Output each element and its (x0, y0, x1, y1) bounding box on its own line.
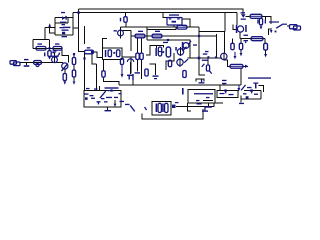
wire R22 arrow shaft (265, 50, 267, 54)
wire box4 left foot (188, 103, 192, 111)
junction dot x92 (91, 51, 93, 53)
dot x208 y57 (207, 56, 209, 58)
box6 bar1 (156, 104, 158, 113)
cap C6 capsule (145, 69, 148, 76)
wire box1 bottom (33, 47, 62, 49)
arrow down x74 (73, 81, 76, 85)
capsule x74 (72, 58, 75, 65)
wire box1 center vertical (49, 40, 51, 51)
wire R11 stem top (125, 13, 127, 18)
IC U1 box (167, 18, 182, 26)
box2 dash g (119, 93, 122, 94)
wire sub box bottom (55, 34, 73, 36)
wire R18 out (243, 65, 248, 67)
navy line y78 (248, 77, 271, 78)
resistor R21 (251, 37, 263, 41)
navy line y22 (269, 21, 279, 22)
dash y103.8 x197 (197, 103, 202, 104)
inductor L1 (34, 61, 42, 67)
navy dash x120 (120, 101, 125, 102)
navy I x182 (182, 88, 184, 95)
box2 dash f (114, 97, 118, 98)
resistor R5 (53, 47, 62, 51)
arrow down x235 head (234, 56, 237, 59)
resistor R19 (239, 43, 242, 49)
wire v92 jog (92, 52, 97, 64)
box2 dot (110, 89, 112, 91)
transistor Q5 circle (183, 43, 189, 49)
diag x202 (201, 63, 205, 67)
wire corner x258 (259, 86, 264, 93)
capsule x184 (183, 71, 186, 78)
wire spur y29.5 (147, 27, 176, 30)
cap x261 bar right (265, 20, 266, 24)
arrow x122 head (121, 74, 124, 78)
navy dash x126 (125, 104, 130, 105)
wire R11 stem bottom (125, 22, 127, 27)
dash y52.6 (52, 52, 55, 53)
R12 label (138, 31, 143, 32)
arrow x122 shaft (122, 65, 123, 75)
wire bus y40 (147, 40, 190, 58)
capsule x141 (140, 53, 143, 59)
cap marks x129 (129, 75, 130, 80)
wire R23 out (187, 26, 199, 28)
wire box2 stub up (99, 86, 101, 91)
switch arm SW1 (61, 63, 69, 71)
resistor R3 vertical (48, 51, 51, 57)
tee y110 stem (204, 107, 205, 112)
dot x199 y58 (198, 57, 201, 60)
cap C4 plate top (60, 22, 67, 23)
resistor R8 (85, 50, 94, 54)
port output (290, 25, 301, 30)
dot x275.5 (275, 31, 277, 33)
ground Q3 (127, 75, 133, 76)
dash y51.5 x206 (205, 51, 209, 52)
wire bus y106.3 (176, 103, 223, 106)
wire input gnd tap (26, 63, 28, 66)
diode D1 (62, 16, 65, 20)
wire box1 left (32, 40, 34, 49)
arrow down x261 head (260, 26, 263, 29)
switch dash (282, 24, 287, 25)
box2 dash a (85, 93, 89, 94)
Q5 marks (193, 44, 197, 45)
wire v133 (132, 80, 134, 85)
arrow down R19 (240, 53, 243, 56)
capsule x74 low (72, 70, 75, 77)
wire Q1 chain (64, 69, 66, 73)
ground x137 (135, 72, 141, 73)
wire stub265 (265, 16, 267, 22)
switch arm head (58, 52, 60, 54)
wire boxB stem (240, 99, 242, 103)
boxB dot (250, 89, 252, 91)
R11 tick (120, 18, 121, 22)
cap C3 minus (53, 50, 57, 51)
Q5 diagonal (188, 41, 192, 45)
wire rail B drop x237 (236, 13, 238, 26)
wire circleA line (180, 47, 182, 56)
port input (10, 61, 20, 66)
wire h57 (122, 56, 136, 58)
wire input (20, 62, 63, 64)
arrow right out (245, 65, 248, 68)
cluster dot (162, 51, 164, 53)
box3L dot (113, 52, 115, 54)
box6 capsule1 (158, 103, 161, 112)
wire v199 (199, 27, 205, 75)
U1 dash right (183, 25, 187, 26)
resistor R6 vertical (63, 74, 66, 81)
box6 capsule2 (165, 103, 168, 112)
box2 dash above (86, 88, 90, 89)
resistor R22 (264, 43, 268, 50)
wire R8 out (94, 52, 103, 58)
wire out seg (287, 25, 290, 27)
diode D1 bar (65, 16, 66, 20)
box2 dash c (91, 98, 95, 99)
navy dash y90 (249, 90, 253, 91)
cap stack square (62, 32, 65, 34)
cluster bar (155, 48, 157, 56)
dot x168 y40 (167, 39, 169, 41)
wire stub y28 (73, 27, 79, 29)
boxB square (246, 96, 249, 99)
wire R20 out (262, 16, 271, 24)
junction dot x84 (83, 57, 85, 59)
wire y31.5 (199, 31, 225, 33)
wire rail A top (79, 9, 244, 14)
arrow x239 head (237, 88, 240, 91)
cap224 plate1 (222, 80, 227, 81)
box2 tee bar (97, 101, 101, 102)
cap C8 stem (245, 41, 246, 43)
wire rail A left drop (79, 9, 85, 52)
wire v131b (130, 57, 132, 74)
diag x210 (209, 70, 212, 74)
wire bus y58 (188, 57, 222, 59)
cap C4 plate bottom (62, 24, 66, 25)
diode V1 triangle (241, 14, 246, 17)
cap x261 capsule (259, 18, 262, 24)
U1 blob (172, 21, 177, 23)
bracket tee bar (199, 82, 205, 83)
R13 label (155, 31, 160, 32)
wire v131 (130, 31, 132, 52)
wire tee208 stem (208, 103, 210, 106)
capsule x232 (231, 43, 234, 49)
resistor R20 (250, 14, 262, 18)
resistor R9 vertical (102, 71, 105, 77)
cluster capsule (166, 47, 170, 57)
wire drop x225 low (224, 32, 226, 54)
wire sub box left (54, 18, 56, 36)
switch arm diag58 (56, 54, 60, 59)
gnd tap bar (24, 65, 30, 67)
wire arrow x115 shaft (114, 100, 116, 104)
arrow down R6 (63, 81, 66, 84)
wire box2 rect (84, 91, 121, 108)
cap C7 bottom (202, 60, 209, 61)
tee under box2 (105, 110, 112, 111)
box4 inner line (194, 93, 213, 94)
wire C3 line (54, 53, 56, 63)
wire vcap232 stem (232, 39, 234, 44)
cap C8 plate top (244, 35, 249, 36)
Q8 bar left (236, 25, 238, 33)
wire cluster box (146, 46, 164, 55)
transistor Q7 circle (221, 53, 227, 59)
wire arrow A1 bend (50, 27, 55, 34)
wire v216 (216, 34, 218, 58)
wire bottom rail (142, 109, 203, 119)
box2 tee stem (98, 101, 99, 104)
wire v141 long (141, 60, 143, 80)
U1 line above (169, 14, 179, 15)
U1 dash a (169, 18, 172, 19)
cap marks x132 (132, 74, 133, 80)
resistor R23 (177, 25, 187, 29)
arrow down x261 shaft (261, 25, 262, 27)
boxA dot (224, 89, 226, 91)
box2 dash e (106, 97, 112, 98)
resistor R4 (36, 47, 46, 51)
box2 dash above2 (94, 88, 98, 89)
resistor R13 (152, 34, 162, 38)
capsule x208 (206, 65, 209, 71)
circleA arrow (182, 46, 187, 51)
wire R19 stems (240, 39, 242, 44)
right diag navy (241, 85, 246, 91)
wire sub box right link (67, 18, 69, 24)
boxB dash below (239, 103, 244, 104)
boxA dot stem (225, 91, 226, 93)
wire bus y85 (119, 84, 241, 86)
wire h27 left (45, 27, 55, 29)
wire U1 stem down (173, 25, 175, 27)
wire y38.7 (240, 38, 265, 40)
switch arm out (276, 24, 283, 29)
arrow down x271 head (270, 30, 273, 33)
wire drop x225 (224, 13, 226, 32)
wire box6 rect (152, 101, 171, 115)
cap tick C2 (44, 53, 45, 57)
wire rail B top (73, 12, 237, 14)
wire diode row (55, 17, 73, 19)
wire boxB left (240, 96, 242, 100)
wire box1 top (33, 39, 49, 41)
cap C3 plate (51, 56, 59, 57)
boxB dash a (243, 93, 247, 94)
Q5 bar (182, 42, 184, 49)
wire box3L stub top (103, 39, 108, 49)
gnd tap minus (24, 59, 29, 60)
wire v45 (44, 28, 46, 40)
bracket tee stem (201, 79, 202, 82)
box4 dash a (206, 97, 210, 98)
wire v265 (264, 39, 266, 44)
diode D1 minus (61, 12, 65, 13)
cap stack bar2 (62, 30, 69, 31)
navy I serif (253, 83, 258, 84)
boxA dash b (229, 94, 234, 95)
wire arrow x115 stub (116, 106, 121, 108)
diode V1 bar (241, 19, 246, 20)
wire x74 link2 (73, 77, 75, 81)
ground G1 bar2 (108, 90, 115, 91)
wire x208 stub (207, 58, 209, 65)
wire box3L rect (103, 48, 123, 60)
resistor R11 (124, 17, 127, 23)
box6 bar2 (162, 104, 164, 113)
ground x155 bar2 (154, 78, 157, 79)
wire stem137 top (137, 38, 139, 53)
cap x261 bar left (257, 20, 258, 24)
dot x199 y36 (198, 35, 200, 37)
label dash above R4 (38, 43, 43, 44)
cap stack bar1 (63, 27, 71, 28)
wire Q8 stem (239, 32, 241, 39)
wire circleB line (179, 58, 181, 67)
wire drop x147 (146, 27, 148, 40)
transistor Q8 circle (237, 26, 243, 32)
tee208 bar (205, 106, 212, 107)
box3L capsule a (108, 50, 111, 57)
wire boxB right (260, 91, 262, 100)
junction dot x73.5 (73, 53, 75, 55)
junction dot rail B (77, 11, 79, 13)
box6 square (172, 105, 176, 108)
diagonal x130 (130, 105, 136, 112)
box4 dash b (196, 100, 200, 101)
wire V1 link (246, 15, 251, 17)
ground G1 bar1 (105, 87, 119, 88)
resistor R18 (230, 64, 243, 68)
box2 square (85, 97, 88, 100)
wire sw corner (269, 29, 273, 35)
transistor circleB (177, 59, 183, 65)
cap C8 plate bottom (244, 40, 249, 41)
cluster fig8 (158, 47, 161, 56)
wire box1 right step (62, 48, 69, 62)
wire box2 under stem (107, 107, 109, 110)
dot x216 y57.5 (215, 56, 217, 58)
box2 dash h (104, 101, 108, 102)
label dash R8 (87, 47, 91, 48)
tee y110 x205 (202, 110, 208, 111)
label dash y42.4 (163, 42, 168, 43)
wire capsule74 stem (73, 53, 75, 58)
tick x145 (144, 107, 147, 111)
wire cluster stem (156, 46, 158, 48)
junction dot box1 (48, 47, 50, 49)
wire v96 (96, 64, 98, 91)
wire boxB top (244, 90, 261, 92)
cap E1 circle (118, 30, 124, 36)
transistor Q3 arc (127, 59, 133, 62)
wire R9 step (104, 77, 120, 85)
cap C4 minus (60, 27, 65, 28)
wire R19 stem low (240, 50, 242, 53)
wire row y36 (131, 35, 216, 37)
ground x155 bar1 (153, 75, 159, 76)
boxA dash a (220, 93, 225, 94)
navy I x255 (255, 83, 257, 89)
arrow down R22 (264, 54, 267, 57)
wire stem141 top (141, 38, 143, 53)
wire pathC (166, 53, 174, 70)
wire R9 stem top (103, 60, 105, 71)
transistor circleA (177, 49, 183, 55)
wire Q3 drop (130, 62, 132, 74)
U1 dash b (177, 18, 180, 19)
cap224 plate2 (222, 83, 227, 84)
capsule x137 (136, 53, 139, 59)
wire bus y27 (121, 26, 178, 28)
circleB marks (184, 59, 189, 64)
wire drop x84.5 (84, 26, 86, 44)
transistor Q1 circle (62, 63, 68, 69)
box6 dash top (175, 102, 179, 103)
wire x74 link (73, 65, 75, 71)
box2 dash b (90, 95, 94, 96)
wire boxA rect (217, 91, 238, 98)
arrow up A1 (48, 23, 51, 27)
capsule x122 (120, 59, 123, 65)
wire v137 low (137, 60, 139, 72)
wire U1 drop x163 (163, 13, 167, 18)
wire cap224 stem (223, 84, 225, 86)
wire right vert x241 top (240, 74, 242, 85)
box3L bar (105, 50, 107, 57)
cap C7 top (203, 53, 208, 54)
wire cap row (55, 22, 68, 24)
label dash above R5 (55, 43, 60, 44)
wire v220 (219, 85, 221, 91)
boxB dash b (254, 94, 258, 95)
wire E1 line (120, 27, 122, 39)
wire bracket y79 (196, 79, 204, 82)
arrow x239 shaft (239, 85, 240, 89)
boxB dot stem (251, 91, 252, 93)
wire boxB bottom (241, 98, 261, 100)
wire box4 inner seg (203, 100, 213, 102)
box2 diagonal (99, 91, 106, 99)
arrow x115 head (114, 104, 117, 107)
arrow down R3 (48, 57, 51, 60)
box3L capsule b (117, 50, 120, 57)
Q8 bar right (245, 25, 247, 32)
resistor R12 (135, 34, 145, 38)
wire v233 (233, 25, 237, 30)
wire box4 rect (188, 90, 215, 104)
box2 dash d (101, 98, 105, 99)
wire x84.5 low (84, 52, 86, 91)
wire U1 out (182, 19, 190, 27)
diode V1 dash top (241, 12, 246, 13)
navy dash y87 (247, 87, 252, 88)
cluster tick (175, 47, 177, 51)
wire Q7 out (224, 53, 230, 66)
wire drop x73 (72, 13, 74, 36)
capsule x170 low (168, 60, 171, 66)
cap E1 minus (114, 30, 118, 31)
wire corner x149 (150, 64, 156, 75)
wire y30.5 link (121, 30, 131, 32)
wire v241 (240, 68, 242, 85)
